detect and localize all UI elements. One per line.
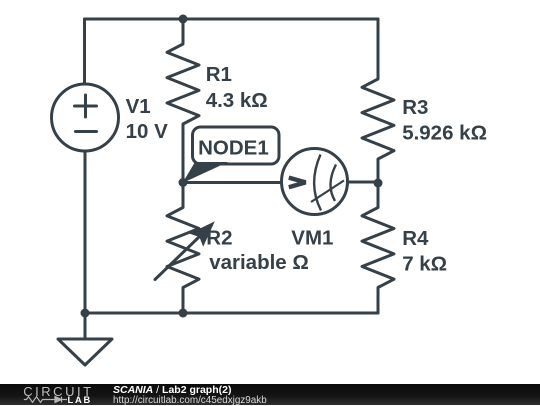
svg-text:variable Ω: variable Ω xyxy=(209,251,309,274)
svg-text:LAB: LAB xyxy=(68,395,93,405)
svg-text:VM1: VM1 xyxy=(291,227,333,250)
svg-text:NODE1: NODE1 xyxy=(198,137,269,160)
svg-text:V1: V1 xyxy=(126,95,151,118)
svg-text:7 kΩ: 7 kΩ xyxy=(402,252,447,275)
svg-text:10 V: 10 V xyxy=(126,120,168,143)
svg-text:R2: R2 xyxy=(206,227,232,250)
svg-text:R1: R1 xyxy=(206,63,232,86)
svg-text:R4: R4 xyxy=(402,227,429,250)
svg-text:R3: R3 xyxy=(402,96,428,119)
svg-text:4.3 kΩ: 4.3 kΩ xyxy=(206,89,268,112)
svg-text:5.926 kΩ: 5.926 kΩ xyxy=(402,121,487,144)
